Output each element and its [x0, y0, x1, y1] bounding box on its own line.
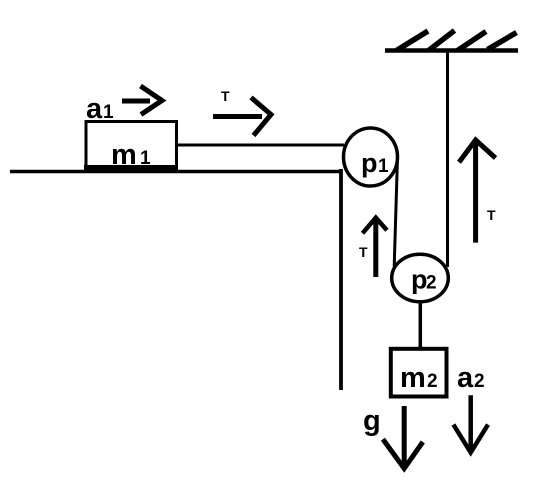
svg-text:1: 1 [140, 148, 151, 169]
svg-text:a: a [457, 362, 474, 394]
svg-text:T: T [487, 207, 496, 223]
svg-text:2: 2 [426, 273, 437, 294]
svg-text:m: m [111, 139, 137, 171]
svg-text:m: m [400, 362, 426, 394]
svg-text:2: 2 [427, 371, 438, 392]
svg-text:T: T [359, 244, 368, 260]
svg-text:2: 2 [474, 371, 485, 392]
svg-text:p: p [361, 148, 378, 178]
svg-text:1: 1 [103, 102, 114, 123]
svg-text:a: a [86, 93, 103, 125]
svg-text:1: 1 [378, 156, 389, 177]
svg-text:T: T [221, 88, 230, 104]
svg-text:g: g [363, 405, 381, 437]
